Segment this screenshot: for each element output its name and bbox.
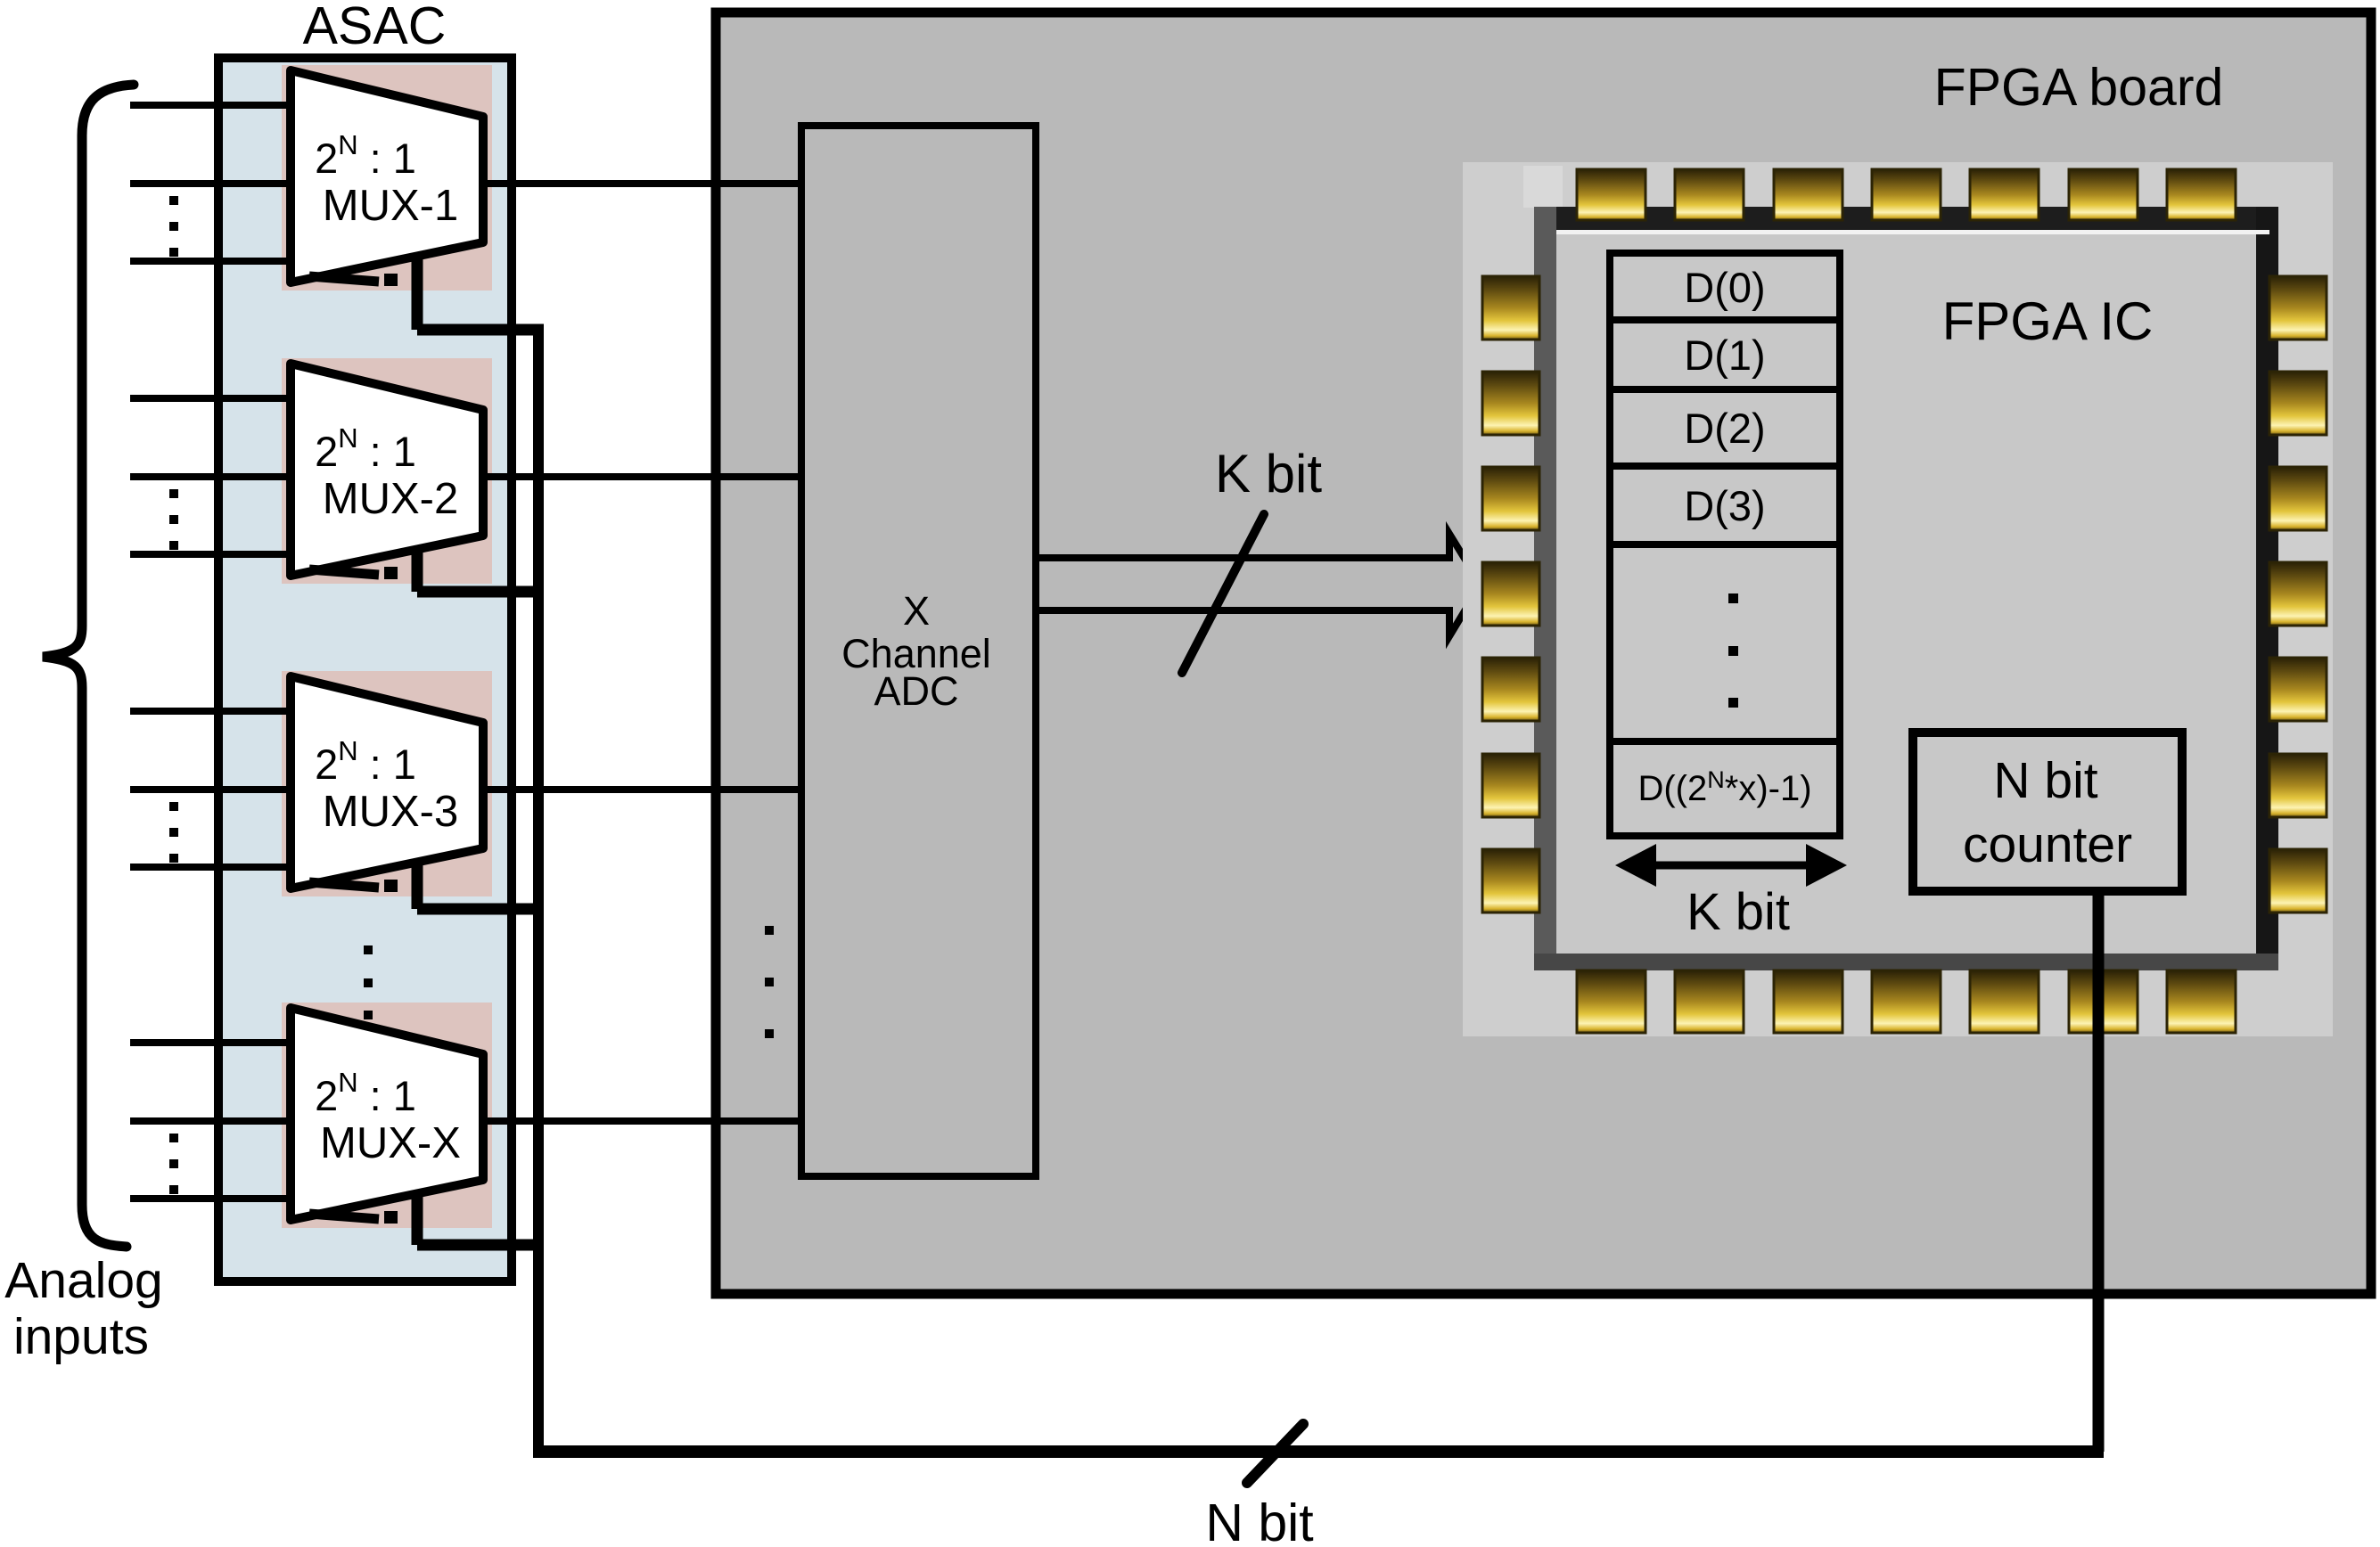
- analog inputs brace: [43, 85, 134, 1247]
- MUX-2 input dots: [169, 489, 178, 550]
- svg-text:D(2): D(2): [1684, 405, 1765, 452]
- MUX-2 highlight: [282, 358, 492, 584]
- svg-text:D(3): D(3): [1684, 482, 1765, 529]
- svg-text:MUX-X: MUX-X: [320, 1119, 461, 1167]
- MUX-1 input dots: [169, 196, 178, 257]
- chip pins bottom row: [1577, 970, 2236, 1033]
- svg-text:D(0): D(0): [1684, 264, 1765, 311]
- K bit slash: [1182, 514, 1264, 673]
- MUX-2 output wire to ADC: [483, 473, 801, 480]
- MUX-2 select wire: [417, 546, 544, 592]
- FPGA IC chip photo background: [1463, 162, 2333, 1036]
- MUX-1 highlight: [282, 65, 492, 291]
- svg-text:MUX-2: MUX-2: [323, 475, 458, 523]
- FPGA board: [716, 12, 2371, 1294]
- svg-text:counter: counter: [1963, 816, 2132, 873]
- chip pins top row: [1577, 169, 2236, 220]
- MUX-1 output wire to ADC: [483, 180, 801, 187]
- memory table dots: [1728, 593, 1738, 708]
- N bit counter wire (vertical): [2093, 891, 2105, 1452]
- MUX-3 highlight: [282, 671, 492, 896]
- more-channels dots: [765, 926, 774, 1038]
- svg-text:N bit: N bit: [1993, 752, 2097, 809]
- MUX-X select wire: [417, 1191, 544, 1245]
- memory cell labels: [1684, 264, 1765, 529]
- K bit bus block arrow: [1036, 534, 1481, 636]
- N bit counter label: [1963, 752, 2132, 873]
- FPGA IC package body: [1534, 207, 2278, 970]
- svg-text:D(1): D(1): [1684, 331, 1765, 379]
- ASAC block (analog switch array): [218, 58, 512, 1281]
- Analog inputs label: [4, 1252, 163, 1365]
- svg-text:K bit: K bit: [1687, 883, 1790, 941]
- MUX-X output wire to ADC: [483, 1117, 801, 1125]
- svg-text:2N : 1: 2N : 1: [315, 129, 416, 182]
- MUX-X input dots: [169, 1134, 178, 1194]
- svg-text:Analog: Analog: [4, 1252, 163, 1309]
- multiplexer MUX-1: [291, 70, 483, 286]
- svg-text:K bit: K bit: [1215, 444, 1322, 503]
- MUX-2 select dash-dot: [309, 569, 379, 575]
- ADC label: [841, 588, 991, 714]
- svg-text:D((2N*x)-1): D((2N*x)-1): [1637, 766, 1811, 808]
- multiplexer MUX-X: [291, 1008, 483, 1224]
- svg-text:ASAC: ASAC: [303, 0, 447, 55]
- N bit select bus (vertical): [533, 324, 544, 1457]
- MUX-3 input wires: [130, 711, 291, 867]
- svg-text:ADC: ADC: [874, 668, 958, 714]
- chip pins right column: [2269, 276, 2327, 913]
- multiplexer MUX-3: [291, 676, 483, 892]
- MUX-3 select dash-dot: [309, 882, 379, 888]
- svg-text:N bit: N bit: [1205, 1494, 1313, 1547]
- svg-text:2N : 1: 2N : 1: [315, 422, 416, 475]
- MUX-3 output wire to ADC: [483, 786, 801, 793]
- svg-text:2N : 1: 2N : 1: [315, 1067, 416, 1119]
- N bit feedback wire (bottom): [533, 1445, 2104, 1458]
- svg-text:FPGA board: FPGA board: [1934, 58, 2224, 117]
- MUX-2 input wires: [130, 398, 291, 554]
- chip pins left column: [1482, 276, 1539, 913]
- inter-MUX dots: [364, 945, 373, 1019]
- svg-text:FPGA IC: FPGA IC: [1942, 291, 2154, 351]
- MUX-X highlight: [282, 1003, 492, 1228]
- MUX-1 input wires: [130, 105, 291, 261]
- N bit slash: [1247, 1424, 1303, 1483]
- MUX-1 select dash-dot: [309, 276, 379, 282]
- MUX-3 input dots: [169, 802, 178, 863]
- svg-text:MUX-1: MUX-1: [323, 182, 458, 230]
- MUX-1 select wire: [417, 253, 544, 330]
- svg-text:X: X: [903, 588, 930, 634]
- multiplexer MUX-2: [291, 364, 483, 579]
- MUX-X select dash-dot: [309, 1214, 379, 1219]
- svg-text:MUX-3: MUX-3: [323, 788, 458, 836]
- MUX-3 select wire: [417, 859, 544, 909]
- X Channel ADC: [801, 126, 1036, 1176]
- K bit width arrow: [1615, 844, 1847, 887]
- svg-text:2N : 1: 2N : 1: [315, 735, 416, 788]
- N bit counter: [1913, 733, 2182, 891]
- sample memory table: [1610, 253, 1840, 836]
- svg-text:inputs: inputs: [13, 1308, 149, 1365]
- MUX-X input wires: [130, 1043, 291, 1199]
